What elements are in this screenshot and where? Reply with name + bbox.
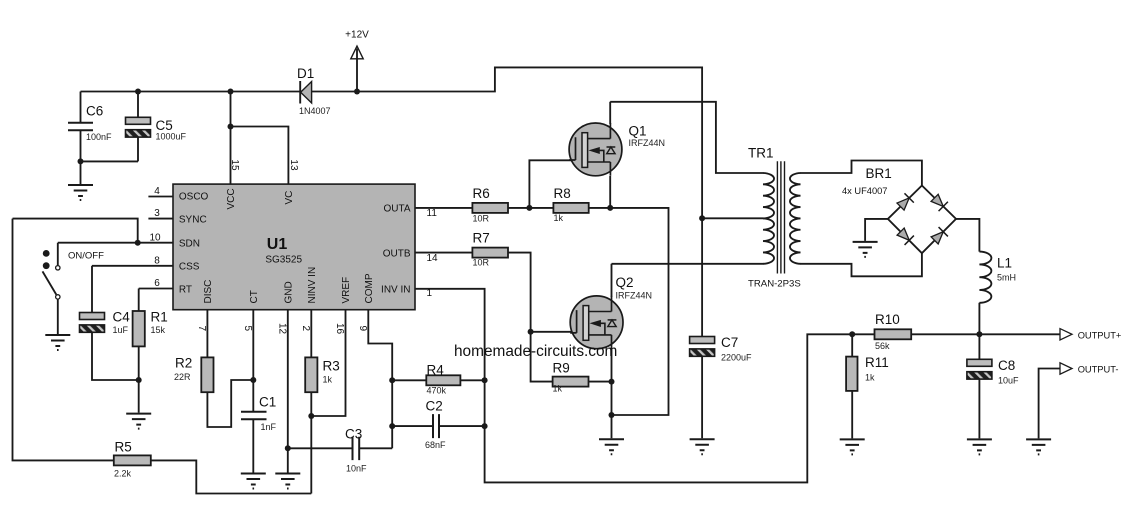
svg-text:10R: 10R <box>473 258 490 268</box>
svg-text:56k: 56k <box>875 341 890 351</box>
svg-text:16: 16 <box>334 323 345 335</box>
svg-text:68nF: 68nF <box>425 440 446 450</box>
svg-text:6: 6 <box>154 278 160 289</box>
svg-text:CT: CT <box>249 290 260 303</box>
svg-text:C7: C7 <box>721 335 738 350</box>
svg-text:R7: R7 <box>473 231 490 246</box>
svg-text:C8: C8 <box>998 358 1015 373</box>
svg-text:C3: C3 <box>345 427 362 442</box>
svg-text:COMP: COMP <box>364 273 375 303</box>
svg-text:15k: 15k <box>151 325 166 335</box>
svg-text:OUTA: OUTA <box>383 204 410 215</box>
svg-text:8: 8 <box>154 255 160 266</box>
svg-text:R1: R1 <box>151 310 168 325</box>
svg-text:BR1: BR1 <box>866 166 892 181</box>
svg-text:470k: 470k <box>427 386 447 396</box>
svg-text:1: 1 <box>427 288 433 299</box>
svg-text:D1: D1 <box>297 66 314 81</box>
svg-text:IRFZ44N: IRFZ44N <box>616 291 653 301</box>
svg-text:CSS: CSS <box>179 262 200 273</box>
svg-text:R3: R3 <box>323 359 340 374</box>
svg-text:5mH: 5mH <box>997 273 1016 283</box>
svg-text:12: 12 <box>276 323 287 335</box>
svg-text:TRAN-2P3S: TRAN-2P3S <box>748 279 801 290</box>
svg-text:OUTPUT-: OUTPUT- <box>1078 365 1119 375</box>
svg-text:11: 11 <box>427 208 438 219</box>
svg-text:+12V: +12V <box>345 30 369 41</box>
svg-text:OSCO: OSCO <box>179 191 209 202</box>
svg-text:R2: R2 <box>175 356 192 371</box>
svg-text:R5: R5 <box>115 440 132 455</box>
svg-text:4x UF4007: 4x UF4007 <box>842 186 887 196</box>
svg-text:1uF: 1uF <box>113 325 129 335</box>
svg-text:VREF: VREF <box>341 277 352 304</box>
svg-text:OUTPUT+: OUTPUT+ <box>1078 330 1122 340</box>
svg-text:R10: R10 <box>875 312 900 327</box>
svg-text:ON/OFF: ON/OFF <box>68 251 104 262</box>
svg-text:TR1: TR1 <box>748 146 774 161</box>
svg-text:OUTB: OUTB <box>383 248 411 259</box>
svg-text:IRFZ44N: IRFZ44N <box>629 138 666 148</box>
svg-text:100nF: 100nF <box>86 132 112 142</box>
svg-text:homemade-circuits.com: homemade-circuits.com <box>454 343 617 360</box>
svg-text:R4: R4 <box>427 363 445 378</box>
svg-text:2.2k: 2.2k <box>114 469 132 479</box>
svg-text:SYNC: SYNC <box>179 214 207 225</box>
svg-text:1N4007: 1N4007 <box>299 106 331 116</box>
svg-text:SG3525: SG3525 <box>265 255 302 266</box>
svg-text:R6: R6 <box>473 186 490 201</box>
svg-text:7: 7 <box>196 326 207 332</box>
svg-text:4: 4 <box>154 186 160 197</box>
svg-text:1k: 1k <box>323 375 333 385</box>
svg-text:13: 13 <box>288 159 299 171</box>
svg-text:14: 14 <box>427 253 439 264</box>
svg-text:INV IN: INV IN <box>381 285 410 296</box>
svg-text:2: 2 <box>300 326 311 332</box>
svg-text:SDN: SDN <box>179 239 200 250</box>
svg-text:C2: C2 <box>426 399 443 414</box>
svg-text:C4: C4 <box>113 310 131 325</box>
svg-text:10: 10 <box>149 232 161 243</box>
svg-text:VCC: VCC <box>226 188 237 209</box>
svg-text:C6: C6 <box>86 104 103 119</box>
svg-text:9: 9 <box>357 326 368 332</box>
svg-text:Q2: Q2 <box>616 275 634 290</box>
svg-text:10nF: 10nF <box>346 464 367 474</box>
svg-text:VC: VC <box>284 191 295 205</box>
svg-text:NINV IN: NINV IN <box>307 267 318 304</box>
svg-text:R11: R11 <box>865 355 889 370</box>
svg-text:10R: 10R <box>473 214 490 224</box>
svg-text:L1: L1 <box>997 256 1012 271</box>
svg-text:5: 5 <box>242 326 253 332</box>
svg-text:DISC: DISC <box>203 280 214 304</box>
svg-text:1000uF: 1000uF <box>156 132 187 142</box>
svg-text:15: 15 <box>229 159 240 171</box>
svg-text:1nF: 1nF <box>261 422 277 432</box>
svg-text:C1: C1 <box>259 395 276 410</box>
svg-text:1k: 1k <box>553 384 563 394</box>
svg-text:1k: 1k <box>865 373 875 383</box>
svg-text:2200uF: 2200uF <box>721 353 752 363</box>
svg-text:Q1: Q1 <box>629 124 647 139</box>
svg-text:R9: R9 <box>553 361 570 376</box>
svg-text:22R: 22R <box>174 372 191 382</box>
svg-text:GND: GND <box>284 281 295 303</box>
svg-text:RT: RT <box>179 284 192 295</box>
svg-text:1k: 1k <box>554 213 564 223</box>
svg-text:U1: U1 <box>267 236 288 253</box>
svg-text:10uF: 10uF <box>998 376 1019 386</box>
svg-text:3: 3 <box>154 208 160 219</box>
svg-text:R8: R8 <box>554 186 571 201</box>
